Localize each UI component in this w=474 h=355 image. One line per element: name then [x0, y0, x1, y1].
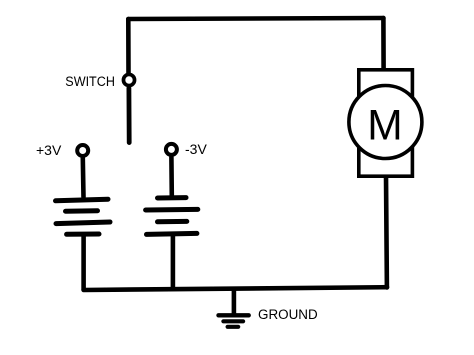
wire right vertical (top rail to motor) — [381, 18, 386, 70]
wire bottom rail — [84, 287, 387, 290]
motor M1 body rectangle — [359, 70, 413, 176]
wire -3V terminal to battery B2 — [169, 157, 174, 196]
wire motor to bottom rail — [384, 176, 389, 288]
battery B2 plate long bottom — [147, 233, 197, 234]
battery B1 plate short — [66, 208, 98, 213]
switch pivot terminal circle — [123, 74, 134, 85]
svg-text:+3V: +3V — [36, 142, 62, 158]
svg-text:GROUND: GROUND — [258, 307, 318, 322]
svg-text:M: M — [367, 103, 402, 150]
battery B2 -3V plate short top — [158, 195, 187, 200]
ground bar 3 — [228, 325, 239, 329]
battery B1 plate short bottom — [67, 232, 99, 237]
battery B2 plate short — [158, 219, 187, 224]
motor M1 circle — [349, 86, 422, 159]
battery B1 +3V plate long top — [56, 199, 109, 201]
ground bar 2 — [223, 319, 243, 323]
wire battery B1 to bottom rail — [81, 236, 86, 290]
wire ground stub — [232, 289, 237, 315]
wire +3V terminal to battery B1 — [81, 158, 86, 197]
ground bar 1 — [219, 313, 249, 317]
wire battery B2 to bottom rail — [171, 236, 176, 288]
battery B2 plate long — [146, 207, 198, 213]
wire top-left vertical (switch to top rail) — [126, 19, 131, 73]
svg-text:-3V: -3V — [185, 141, 207, 157]
wire top rail — [128, 18, 383, 19]
battery B1 plate long — [56, 222, 110, 224]
switch lever (open, hanging down) — [126, 88, 131, 143]
node -3V terminal circle — [166, 144, 177, 155]
node +3V terminal circle — [77, 145, 88, 156]
svg-text:SWITCH: SWITCH — [65, 73, 115, 89]
